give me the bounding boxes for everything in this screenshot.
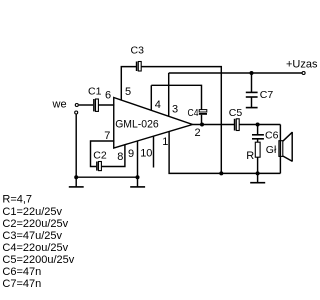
- svg-text:4: 4: [155, 99, 161, 111]
- wire: terminal to C1: [79, 104, 93, 106]
- resistor R: [255, 142, 260, 157]
- supply rail +Uzas: [169, 72, 302, 74]
- junction: C7 tap: [250, 71, 254, 75]
- wire: C5 to speaker corner: [239, 124, 280, 126]
- node: input terminal (signal): [75, 104, 78, 107]
- ground (right of left rail): [137, 177, 139, 186]
- loudspeaker Gl: [279, 141, 283, 157]
- svg-text:C1: C1: [88, 86, 102, 98]
- node: input terminal (ground side): [75, 111, 78, 114]
- capacitor C7: [251, 73, 253, 92]
- pin 4 wire: [150, 85, 152, 110]
- junction: output node at C4: [200, 123, 204, 127]
- svg-text:Gł: Gł: [266, 144, 277, 156]
- svg-text:C3: C3: [131, 45, 145, 57]
- capacitor C3: [136, 62, 138, 72]
- wire: pin 4 to C4 top: [151, 85, 201, 110]
- ground (bottom rail): [257, 173, 259, 182]
- wire: R to bottom rail: [257, 157, 259, 173]
- wire: C4 to output node: [201, 115, 203, 125]
- svg-text:GML-026: GML-026: [115, 119, 159, 131]
- svg-text:C3=47u/25v: C3=47u/25v: [2, 230, 62, 242]
- svg-text:8: 8: [117, 151, 123, 163]
- wire: C6 to R: [257, 139, 259, 142]
- wire: output line apex to C5: [193, 124, 235, 126]
- svg-text:C2: C2: [93, 150, 107, 162]
- ground (C7): [246, 107, 258, 109]
- svg-text:R: R: [246, 150, 254, 162]
- svg-text:2: 2: [195, 127, 201, 139]
- pin 5 wire: [121, 67, 136, 101]
- op-amp U1 GML-026: [114, 98, 193, 149]
- svg-text:C7=47n: C7=47n: [2, 278, 41, 290]
- svg-text:C4: C4: [188, 107, 199, 119]
- wire: terminal down to left ground rail: [75, 114, 77, 177]
- svg-text:6: 6: [105, 90, 111, 102]
- pin 3 wire: [168, 73, 170, 116]
- wire: node down through speaker to bottom rail: [279, 125, 281, 174]
- capacitor C5: [234, 119, 236, 131]
- junction: rail left: [74, 175, 78, 179]
- pin 10 wire: [153, 136, 155, 167]
- pin 1 wire: [169, 132, 280, 174]
- svg-text:C7: C7: [260, 89, 274, 101]
- pin 7 wire / feedback loop with C2: [91, 141, 115, 167]
- capacitor C4: [199, 110, 207, 112]
- svg-text:C5=2200u/25v: C5=2200u/25v: [2, 254, 74, 266]
- svg-text:C5: C5: [229, 107, 243, 119]
- wire: left ground rail: [76, 176, 137, 178]
- svg-text:5: 5: [125, 86, 131, 98]
- svg-text:10: 10: [140, 148, 152, 160]
- svg-text:C6: C6: [265, 130, 279, 142]
- wire: C2 to pin 8: [101, 145, 125, 167]
- svg-text:9: 9: [128, 148, 134, 160]
- svg-text:1: 1: [162, 136, 168, 148]
- junction: zobel tap: [256, 123, 260, 127]
- junction: zobel on bottom rail: [256, 171, 260, 175]
- capacitor C2: [96, 162, 98, 171]
- svg-text:R=4,7: R=4,7: [2, 194, 32, 206]
- junction: rail right / pin 9: [136, 175, 140, 179]
- wire: C1 to pin 6: [98, 104, 114, 106]
- svg-text:C6=47n: C6=47n: [2, 266, 41, 278]
- svg-text:3: 3: [172, 104, 178, 116]
- capacitor C6: [252, 134, 264, 136]
- pin 9 wire: [137, 141, 139, 177]
- junction: C3 drop on bottom rail: [219, 171, 223, 175]
- wire: tap down to C6: [257, 125, 259, 135]
- supply terminal: [302, 72, 305, 75]
- ground (left): [75, 177, 77, 186]
- wire: C3 right to drop: [141, 67, 221, 174]
- svg-text:C4=22ou/25v: C4=22ou/25v: [2, 242, 68, 254]
- svg-text:C1=22u/25v: C1=22u/25v: [2, 206, 62, 218]
- svg-text:we: we: [52, 99, 67, 111]
- svg-text:C2=220u/25v: C2=220u/25v: [2, 218, 68, 230]
- svg-text:7: 7: [104, 130, 110, 142]
- capacitor C1: [93, 99, 95, 111]
- svg-text:+Uzas: +Uzas: [286, 59, 318, 71]
